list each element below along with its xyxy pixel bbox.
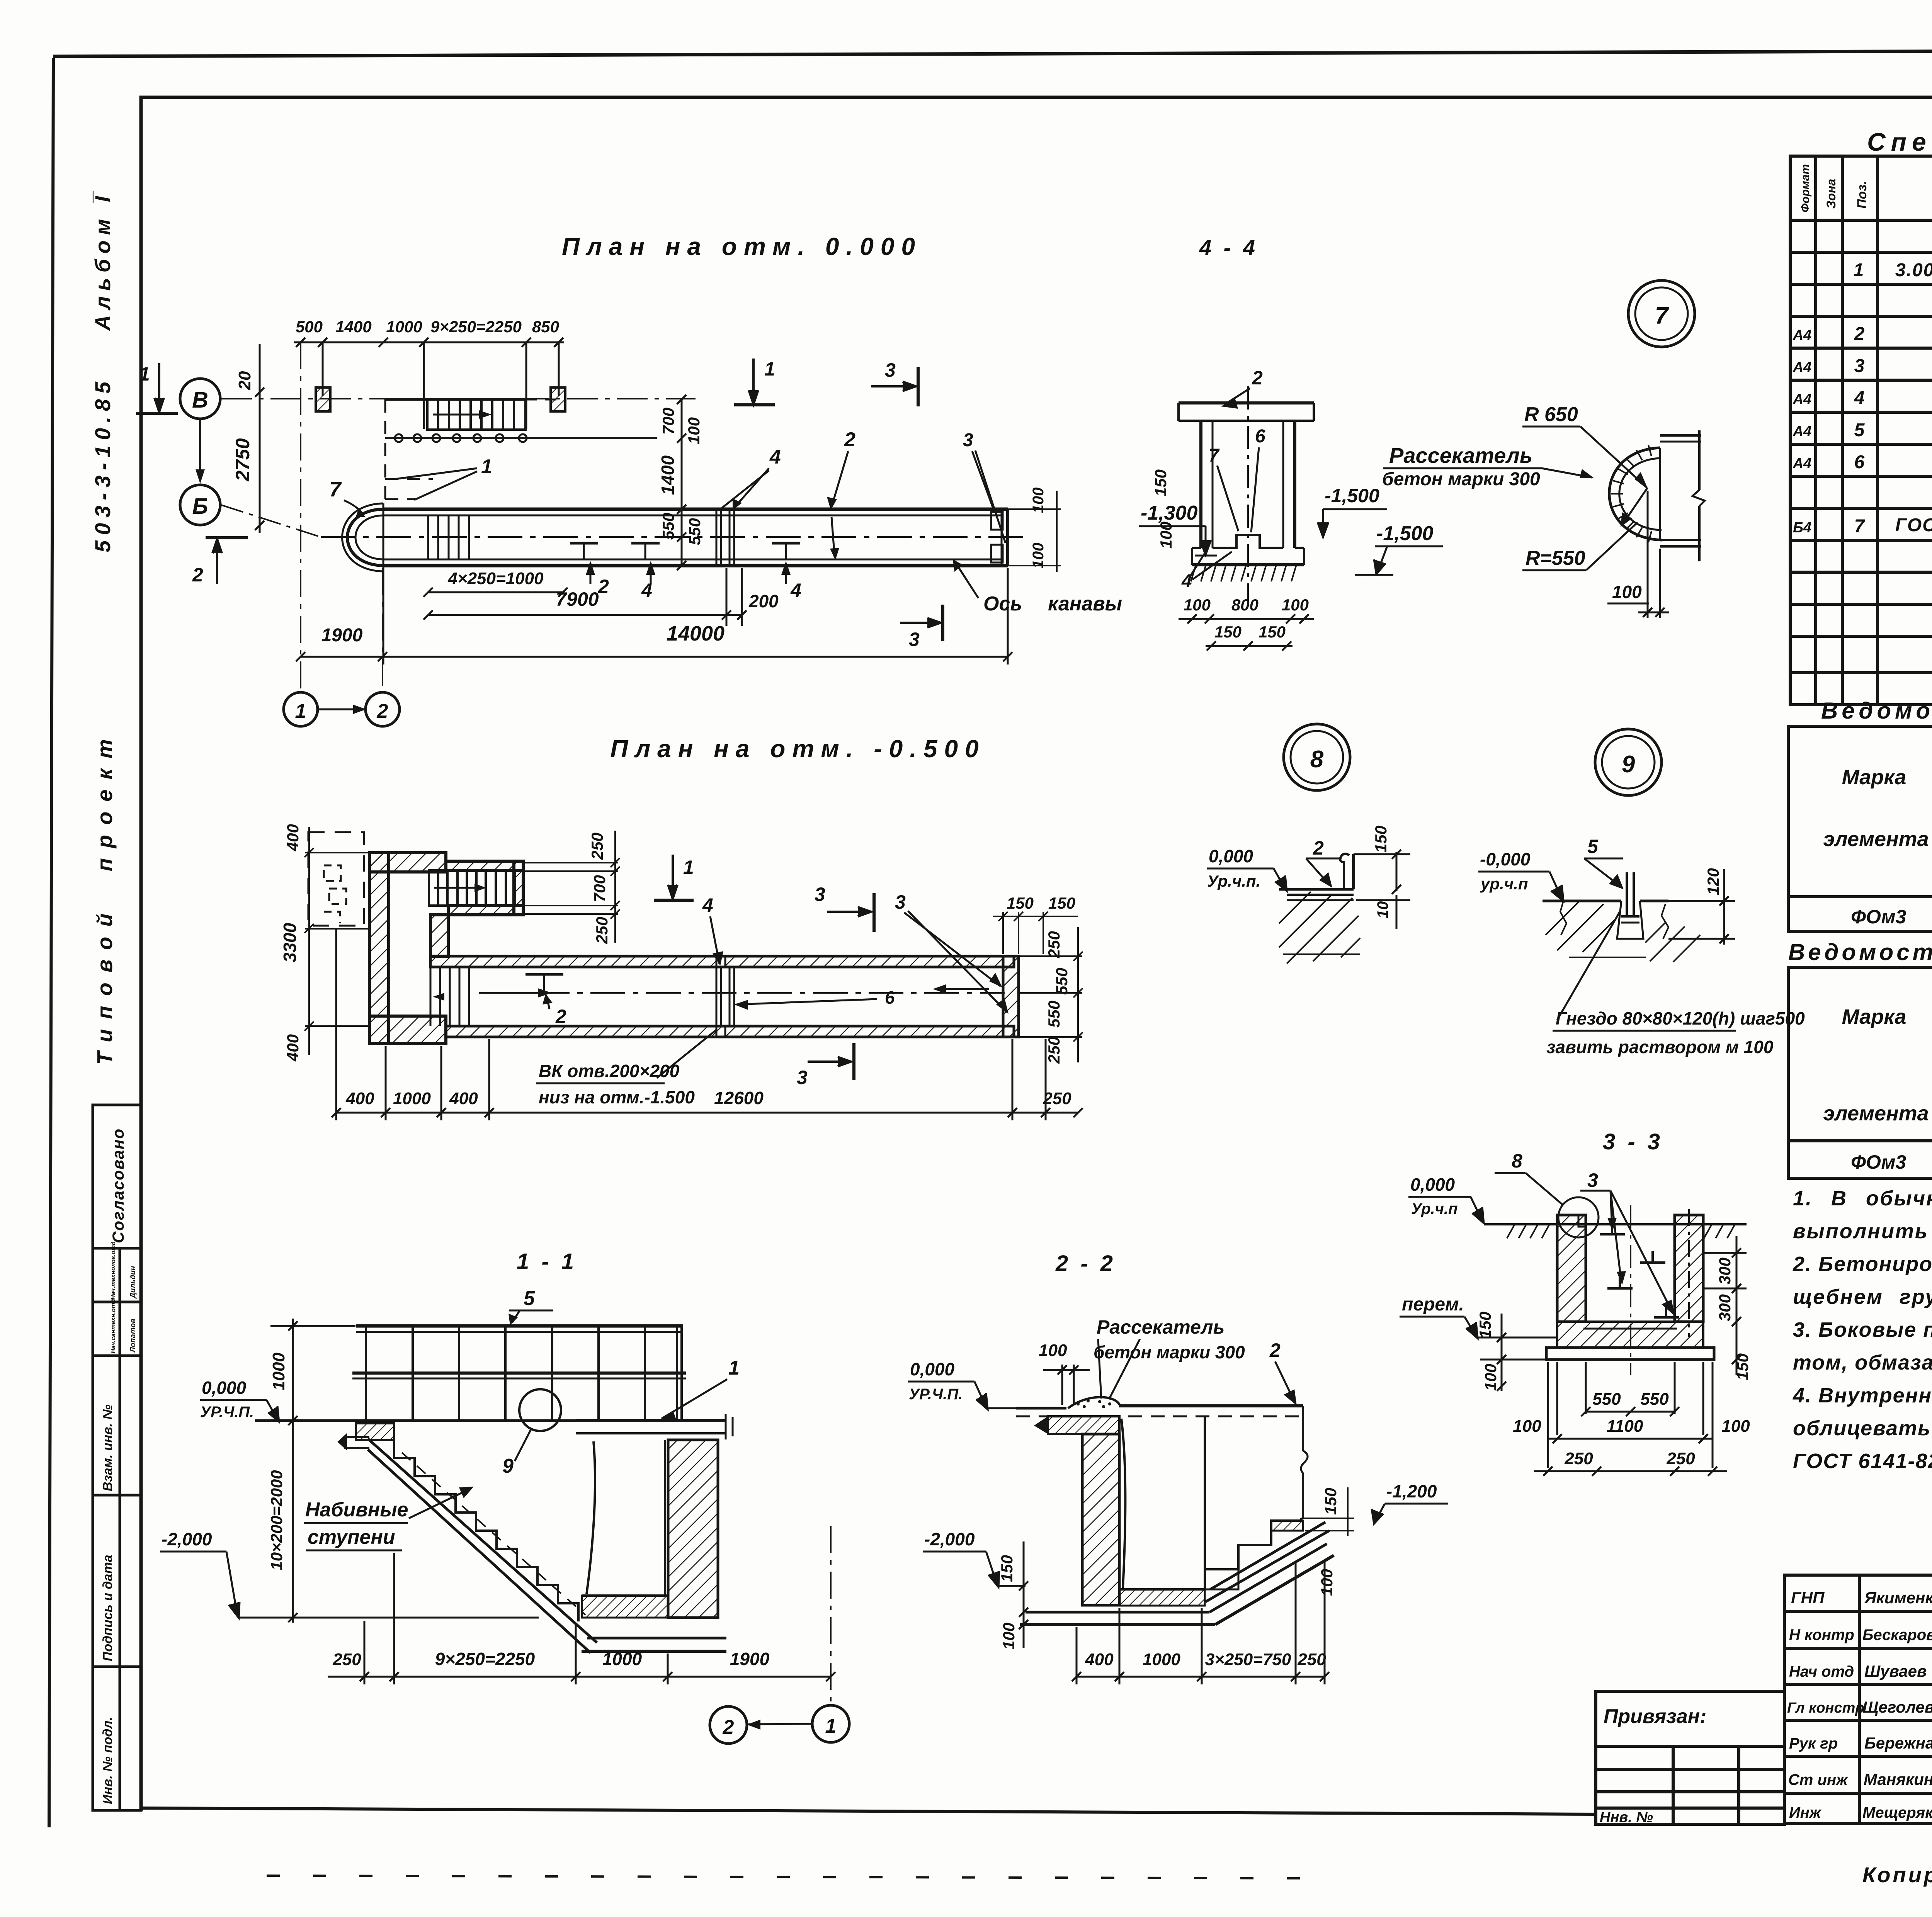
svg-text:-2,000: -2,000: [924, 1529, 975, 1549]
trench interior steps: [428, 515, 469, 559]
svg-text:150: 150: [1007, 894, 1034, 912]
svg-text:400: 400: [449, 1089, 478, 1108]
svg-text:канавы: канавы: [1048, 593, 1122, 615]
svg-text:0,000: 0,000: [202, 1378, 247, 1398]
floor line: [1279, 888, 1354, 891]
tunnel floor: [1119, 1588, 1205, 1591]
svg-text:3: 3: [1854, 356, 1865, 376]
detail ring: [1558, 1197, 1599, 1237]
central column hatched: [1082, 1434, 1119, 1605]
svg-text:1000: 1000: [386, 318, 422, 336]
svg-text:100: 100: [1481, 1364, 1500, 1391]
wall top step: [1578, 1215, 1586, 1227]
svg-text:Бескаровайный: Бескаровайный: [1862, 1626, 1932, 1643]
arrow В to Б: [199, 420, 201, 480]
svg-text:150: 150: [998, 1555, 1016, 1582]
centre axis: [1630, 1205, 1631, 1375]
svg-text:УР.Ч.П.: УР.Ч.П.: [909, 1386, 963, 1403]
svg-text:Набивные: Набивные: [305, 1499, 408, 1521]
svg-text:2750: 2750: [232, 438, 253, 481]
svg-text:1000: 1000: [1143, 1650, 1180, 1669]
leaning plate line: [1121, 1419, 1125, 1588]
svg-text:250: 250: [332, 1650, 361, 1669]
svg-text:550: 550: [1053, 968, 1071, 995]
svg-text:4: 4: [1181, 571, 1192, 591]
radial hatch on arc: [1611, 445, 1651, 542]
svg-text:850: 850: [532, 318, 559, 336]
svg-text:Шуваев: Шуваев: [1864, 1662, 1927, 1680]
top wall line: [385, 398, 526, 401]
svg-text:100: 100: [1721, 1417, 1750, 1436]
svg-text:250: 250: [588, 833, 606, 860]
svg-text:2: 2: [555, 1006, 566, 1027]
svg-text:100: 100: [1612, 582, 1642, 602]
tunnel floor hatch band: [582, 1596, 668, 1618]
svg-text:Ур.ч.п.: Ур.ч.п.: [1207, 872, 1260, 890]
dim 20 / 2750 vertical: [255, 344, 264, 533]
svg-text:1: 1: [728, 1357, 740, 1379]
svg-text:2: 2: [723, 1716, 734, 1739]
svg-text:7900: 7900: [556, 588, 599, 610]
svg-text:6: 6: [885, 987, 895, 1008]
svg-text:Нач.сантехн.отд: Нач.сантехн.отд: [110, 1299, 117, 1353]
svg-text:3: 3: [885, 359, 896, 381]
arrow between axis circles: [318, 709, 365, 710]
svg-text:УР.Ч.П.: УР.Ч.П.: [200, 1404, 254, 1421]
upper stair treads: [427, 399, 526, 430]
svg-text:8: 8: [1310, 746, 1324, 773]
landing top right hatched: [1271, 1521, 1303, 1531]
svg-text:503-3-10.85 Альбом I̅: 503-3-10.85 Альбом I̅: [90, 190, 115, 552]
svg-text:щебнем грунту.: щебнем грунту.: [1793, 1285, 1932, 1309]
radius arrow R=550: [1623, 488, 1648, 524]
svg-text:2: 2: [1854, 324, 1865, 344]
axis В dash line: [221, 398, 696, 399]
svg-text:Зона: Зона: [1824, 179, 1838, 209]
svg-text:250: 250: [1045, 1037, 1063, 1064]
svg-text:550: 550: [659, 513, 677, 540]
ground hatch ticks: [1191, 565, 1296, 581]
axis 1 line: [300, 342, 301, 692]
svg-text:Подпись и дата: Подпись и дата: [100, 1555, 115, 1661]
svg-text:550: 550: [1045, 1001, 1063, 1028]
bottom slab band: [587, 1637, 726, 1640]
detail circle 8: [1284, 724, 1350, 790]
svg-text:1000: 1000: [269, 1353, 288, 1390]
svg-text:Бережная: Бережная: [1864, 1734, 1932, 1752]
svg-text:250: 250: [1564, 1449, 1593, 1468]
svg-text:400: 400: [284, 1034, 302, 1062]
svg-text:Спецификация: Спецификация: [1867, 127, 1932, 156]
svg-text:Лопатов: Лопатов: [129, 1319, 137, 1353]
svg-text:400: 400: [284, 824, 302, 851]
stringer: [338, 1433, 597, 1653]
svg-text:3 - 3: 3 - 3: [1603, 1129, 1663, 1154]
outer border left: [49, 58, 53, 1827]
svg-text:1900: 1900: [321, 625, 363, 646]
svg-text:ступени: ступени: [308, 1526, 395, 1548]
svg-text:Ось: Ось: [983, 593, 1022, 615]
arrow circle1 to circle2: [748, 1724, 811, 1724]
svg-text:Якименко: Якименко: [1864, 1589, 1932, 1607]
svg-text:3.006-2, Вып II̲-2: 3.006-2, Вып II̲-2: [1895, 260, 1932, 280]
signature table: [1784, 1575, 1932, 1824]
stairs steps: [394, 1440, 578, 1621]
svg-text:9: 9: [502, 1455, 514, 1477]
dim chain right of stairs: [523, 831, 620, 943]
axis circle 2: [366, 692, 400, 726]
ground hatch left right: [1507, 1224, 1735, 1238]
stamp box Подпись и дата: [93, 1495, 120, 1667]
svg-text:Ведомость расхода стали на: Ведомость расхода стали на элемент, кг (…: [1788, 939, 1932, 965]
svg-text:ФОм3: ФОм3: [1851, 906, 1906, 928]
svg-text:Привязан:: Привязан:: [1604, 1705, 1706, 1728]
steel table 2 grid: [1788, 967, 1932, 1178]
wall lines right of bullnose: [1660, 430, 1705, 561]
svg-text:10: 10: [1374, 901, 1391, 919]
svg-text:9×250=2250: 9×250=2250: [430, 318, 522, 336]
svg-text:Дильдин: Дильдин: [129, 1266, 137, 1299]
svg-text:Нач.технолог.отд: Нач.технолог.отд: [110, 1241, 117, 1300]
svg-text:2: 2: [598, 576, 609, 597]
svg-text:Нач отд: Нач отд: [1789, 1663, 1854, 1680]
svg-text:300: 300: [1716, 1294, 1734, 1321]
trench walls plan: [383, 509, 1008, 566]
svg-text:500: 500: [296, 318, 323, 336]
svg-text:2: 2: [1313, 837, 1324, 859]
svg-text:А4: А4: [1793, 391, 1812, 408]
floor line with bolt: [1543, 872, 1668, 923]
svg-text:1: 1: [1854, 260, 1864, 280]
sloped slab under steps: [1206, 1522, 1329, 1602]
walls: [1201, 421, 1295, 548]
svg-text:ГОСТ 6141-82, полы керамическо: ГОСТ 6141-82, полы керамической плиткой …: [1793, 1450, 1932, 1473]
bottom extension lines: [1548, 1362, 1713, 1468]
bullnose enlarged: [1609, 448, 1662, 540]
anchor marks: [570, 543, 800, 559]
svg-text:2: 2: [377, 700, 388, 722]
svg-text:Согласовано: Согласовано: [109, 1128, 127, 1243]
svg-text:бетон марки 300: бетон марки 300: [1094, 1342, 1245, 1362]
svg-text:Марка: Марка: [1842, 766, 1906, 789]
svg-text:-1,300: -1,300: [1141, 502, 1198, 524]
svg-text:Ведомость расхода стали на: Ведомость расхода стали на элемент,кг(на…: [1821, 698, 1932, 724]
svg-text:2: 2: [1269, 1339, 1281, 1361]
tunnel void leaning plate: [587, 1441, 595, 1594]
dashed inner details: [324, 865, 346, 923]
stair dashed slope: [402, 1453, 585, 1615]
embedded angle: [1287, 854, 1354, 900]
svg-text:250: 250: [1297, 1650, 1326, 1669]
svg-text:700: 700: [659, 408, 677, 435]
svg-text:5: 5: [1854, 420, 1865, 440]
outer border top: [53, 49, 1932, 56]
footing plate: [1546, 1348, 1714, 1360]
svg-text:перем.: перем.: [1402, 1294, 1464, 1315]
bottom slab with notch: [1192, 535, 1304, 565]
ground hatch: [1279, 892, 1360, 964]
svg-text:150: 150: [1372, 826, 1390, 853]
svg-text:150: 150: [1048, 894, 1075, 912]
railing top rail: [356, 1324, 683, 1328]
svg-text:План на отм. 0.000: План на отм. 0.000: [562, 233, 922, 260]
svg-text:-1,500: -1,500: [1376, 522, 1434, 545]
svg-text:150: 150: [1259, 623, 1286, 641]
svg-text:А4: А4: [1793, 359, 1812, 376]
svg-text:элемента: элемента: [1823, 828, 1929, 851]
svg-text:Щеголев: Щеголев: [1862, 1698, 1932, 1716]
axis circle 1: [812, 1705, 849, 1742]
svg-text:10×200=2000: 10×200=2000: [267, 1470, 286, 1570]
svg-text:План на отм. -0.500: План на отм. -0.500: [610, 735, 985, 763]
svg-text:1000: 1000: [393, 1089, 431, 1108]
svg-text:250: 250: [593, 917, 611, 944]
svg-text:3: 3: [895, 891, 906, 913]
svg-text:100: 100: [1030, 543, 1047, 569]
svg-text:4×250=1000: 4×250=1000: [447, 569, 544, 588]
svg-text:3300: 3300: [280, 923, 300, 962]
svg-text:0,000: 0,000: [1410, 1174, 1455, 1195]
svg-text:4: 4: [702, 894, 713, 916]
svg-text:3×250=750: 3×250=750: [1205, 1650, 1291, 1669]
svg-text:2. Бетонирование фундамента пр: 2. Бетонирование фундамента производить …: [1793, 1253, 1932, 1276]
svg-text:5: 5: [1587, 836, 1599, 857]
trench bottom wall hatched: [446, 1026, 1014, 1037]
centre axis: [1247, 386, 1249, 601]
axis circle 2: [710, 1706, 747, 1744]
svg-text:Гл констр: Гл констр: [1787, 1700, 1864, 1716]
svg-text:9: 9: [1622, 751, 1635, 778]
svg-text:8: 8: [1512, 1150, 1522, 1172]
svg-text:Рассекатель: Рассекатель: [1389, 443, 1532, 467]
wall post left: [316, 387, 330, 411]
svg-text:-0,000: -0,000: [1480, 849, 1531, 869]
floor line: [255, 1419, 576, 1422]
top slab right: [576, 1419, 726, 1422]
svg-text:6: 6: [1854, 452, 1865, 472]
svg-text:12600: 12600: [714, 1088, 764, 1108]
detail circle 7: [1628, 280, 1695, 347]
svg-text:3: 3: [815, 884, 825, 905]
axis circle Б: [180, 485, 220, 525]
stamp box Взам.инв.№: [93, 1356, 120, 1495]
svg-text:Марка: Марка: [1842, 1005, 1906, 1028]
svg-text:200: 200: [748, 591, 779, 611]
svg-text:-1,500: -1,500: [1325, 485, 1379, 506]
railing mid rail: [352, 1371, 686, 1375]
svg-text:Ур.ч.п: Ур.ч.п: [1411, 1200, 1458, 1217]
svg-text:3: 3: [797, 1067, 808, 1088]
svg-text:ГОСТ 5781-82: ГОСТ 5781-82: [1895, 515, 1932, 535]
svg-text:-2,000: -2,000: [162, 1529, 212, 1549]
svg-text:2 - 2: 2 - 2: [1055, 1251, 1116, 1276]
ground hatch: [1546, 900, 1700, 962]
right wall axis: [1688, 1209, 1690, 1337]
svg-text:R 650: R 650: [1524, 403, 1578, 426]
svg-text:том, обмазать снаружи горячи: том, обмазать снаружи горячим битумом за…: [1793, 1351, 1932, 1374]
svg-text:14000: 14000: [667, 622, 724, 645]
top slab: [1179, 403, 1314, 421]
svg-text:100: 100: [1039, 1341, 1067, 1360]
footer dashed line: [267, 1876, 1333, 1878]
svg-text:150: 150: [1321, 1488, 1340, 1515]
svg-text:20: 20: [235, 371, 254, 390]
trench top wall hatched: [430, 956, 1014, 967]
anchor bars in channel: [1600, 1223, 1679, 1317]
svg-text:Гнездо 80×80×120(h) шаг500: Гнездо 80×80×120(h) шаг500: [1556, 1008, 1805, 1028]
svg-text:1: 1: [825, 1715, 837, 1737]
svg-text:Рассекатель: Рассекатель: [1097, 1316, 1225, 1338]
svg-text:700: 700: [590, 875, 609, 902]
svg-text:2: 2: [1252, 367, 1263, 389]
svg-text:Инв. № подл.: Инв. № подл.: [100, 1717, 115, 1804]
svg-text:Взам. инв. №: Взам. инв. №: [100, 1404, 115, 1491]
svg-text:3: 3: [963, 430, 973, 450]
svg-text:Н контр: Н контр: [1789, 1626, 1854, 1643]
trench end wall hatched: [1003, 956, 1019, 1037]
axis circle В: [180, 379, 220, 419]
svg-text:1100: 1100: [1607, 1417, 1643, 1436]
svg-text:Копировал: Копировал: [1862, 1863, 1932, 1887]
svg-text:3. Боковые поверхности фундаме: 3. Боковые поверхности фундамента, сопри…: [1793, 1318, 1932, 1341]
left block walls hatched: [369, 853, 523, 1043]
svg-text:1: 1: [683, 857, 694, 878]
top landing hatched: [356, 1423, 394, 1440]
svg-text:150: 150: [1214, 623, 1242, 641]
svg-text:Б: Б: [192, 494, 208, 519]
ground line: [1484, 1223, 1747, 1225]
svg-text:1: 1: [481, 455, 492, 478]
svg-text:6: 6: [1255, 426, 1265, 447]
svg-text:100: 100: [685, 417, 703, 444]
svg-text:250: 250: [1666, 1449, 1695, 1468]
svg-text:250: 250: [1045, 931, 1063, 958]
plan top dimension line: [294, 338, 564, 429]
stamp column box: Согласовано: [93, 1105, 141, 1248]
svg-text:400: 400: [345, 1089, 374, 1108]
svg-text:300: 300: [1716, 1258, 1734, 1285]
svg-text:4: 4: [790, 580, 801, 601]
svg-text:0,000: 0,000: [1209, 846, 1253, 866]
upper stair treads: [429, 870, 515, 906]
svg-text:А4: А4: [1793, 455, 1812, 472]
svg-text:4: 4: [1854, 388, 1865, 408]
axis circle 1: [284, 692, 318, 726]
hump dots: [1077, 1399, 1111, 1408]
bullnose splitter plan: [342, 503, 384, 571]
svg-text:3: 3: [1587, 1169, 1598, 1191]
svg-text:4: 4: [769, 446, 781, 468]
detail circle 9: [1595, 729, 1662, 795]
svg-text:7: 7: [1655, 303, 1669, 329]
svg-text:1000: 1000: [602, 1649, 642, 1669]
channel walls hatched: [1557, 1215, 1586, 1322]
svg-text:ФОм3: ФОм3: [1851, 1151, 1906, 1173]
svg-text:-1,200: -1,200: [1386, 1481, 1437, 1501]
railing line with posts: [385, 437, 657, 439]
expansion joint: [716, 509, 734, 566]
svg-text:ур.ч.п: ур.ч.п: [1480, 875, 1528, 893]
svg-text:Б4: Б4: [1793, 520, 1811, 536]
svg-text:100: 100: [1000, 1623, 1018, 1650]
stamp box Инв.№ подл.: [93, 1667, 120, 1810]
trench axis with arrows: [479, 992, 1005, 994]
privyazan box: [1596, 1691, 1784, 1824]
svg-text:1: 1: [139, 363, 150, 385]
svg-text:Мещерякова: Мещерякова: [1862, 1804, 1932, 1821]
svg-text:Инж: Инж: [1789, 1804, 1822, 1821]
nest outline: [1617, 901, 1643, 939]
svg-text:7: 7: [1854, 516, 1866, 537]
svg-text:1. В обычных условиях канаву: 1. В обычных условиях канаву заполнить п…: [1793, 1187, 1932, 1210]
svg-text:0,000: 0,000: [910, 1359, 955, 1379]
svg-text:облицевать керамической плит: облицевать керамической плиткой белого ц…: [1793, 1417, 1932, 1440]
lower stair steps in trench: [430, 967, 469, 1026]
svg-text:150: 150: [1476, 1312, 1494, 1339]
svg-text:4. Внутренние поверхности ст: 4. Внутренние поверхности стен канавы, л…: [1793, 1384, 1932, 1407]
svg-text:Формат: Формат: [1799, 164, 1812, 212]
svg-text:7: 7: [1209, 445, 1220, 466]
svg-text:низ на отм.-1.500: низ на отм.-1.500: [539, 1087, 695, 1107]
axis dash to circle 1: [830, 1526, 832, 1703]
svg-text:Ст инж: Ст инж: [1788, 1771, 1849, 1788]
svg-text:550: 550: [1640, 1390, 1669, 1409]
svg-text:1400: 1400: [658, 455, 678, 495]
svg-text:100: 100: [1513, 1417, 1541, 1436]
svg-text:2: 2: [192, 564, 203, 586]
trench centre axis: [321, 536, 1024, 538]
bottom slab: [1020, 1544, 1334, 1625]
steps right: [1205, 1518, 1301, 1569]
svg-text:Типовой проект: Типовой проект: [92, 729, 117, 1065]
svg-text:5: 5: [524, 1287, 535, 1310]
left overhang hatched: [1048, 1416, 1119, 1434]
svg-text:А4: А4: [1793, 423, 1812, 440]
svg-text:Ннв. №: Ннв. №: [1600, 1809, 1653, 1825]
svg-text:550: 550: [685, 518, 704, 545]
end plates: [991, 512, 1003, 530]
svg-text:R=550: R=550: [1526, 547, 1585, 569]
wall post right: [551, 387, 565, 411]
svg-text:Манякина: Манякина: [1864, 1770, 1932, 1788]
svg-text:1: 1: [295, 700, 306, 722]
svg-text:ГНП: ГНП: [1791, 1589, 1825, 1607]
svg-text:1400: 1400: [335, 318, 371, 336]
svg-text:ВК отв.200×200: ВК отв.200×200: [539, 1061, 680, 1081]
svg-text:100: 100: [1282, 596, 1309, 614]
expansion joint: [716, 956, 734, 1037]
svg-text:120: 120: [1704, 868, 1722, 895]
dashed pit rectangle: [308, 832, 364, 926]
svg-text:100: 100: [1157, 522, 1175, 549]
svg-text:4 - 4: 4 - 4: [1199, 235, 1258, 260]
hidden edge dashed: [384, 399, 386, 509]
svg-text:В: В: [192, 387, 208, 413]
svg-text:элемента: элемента: [1823, 1102, 1929, 1125]
svg-text:1: 1: [764, 358, 775, 380]
svg-text:3: 3: [909, 629, 920, 650]
anchor mark: [526, 973, 563, 976]
left dim chain: [270, 1319, 355, 1623]
tunnel wall hatched: [668, 1440, 718, 1618]
svg-text:1 - 1: 1 - 1: [517, 1249, 577, 1274]
svg-text:250: 250: [1043, 1089, 1071, 1108]
svg-text:550: 550: [1592, 1390, 1621, 1409]
svg-text:100: 100: [1184, 596, 1211, 614]
svg-text:Поз.: Поз.: [1855, 181, 1869, 209]
svg-text:150: 150: [1151, 469, 1170, 496]
svg-text:выполнить покрытие пола.: выполнить покрытие пола.: [1793, 1220, 1932, 1243]
